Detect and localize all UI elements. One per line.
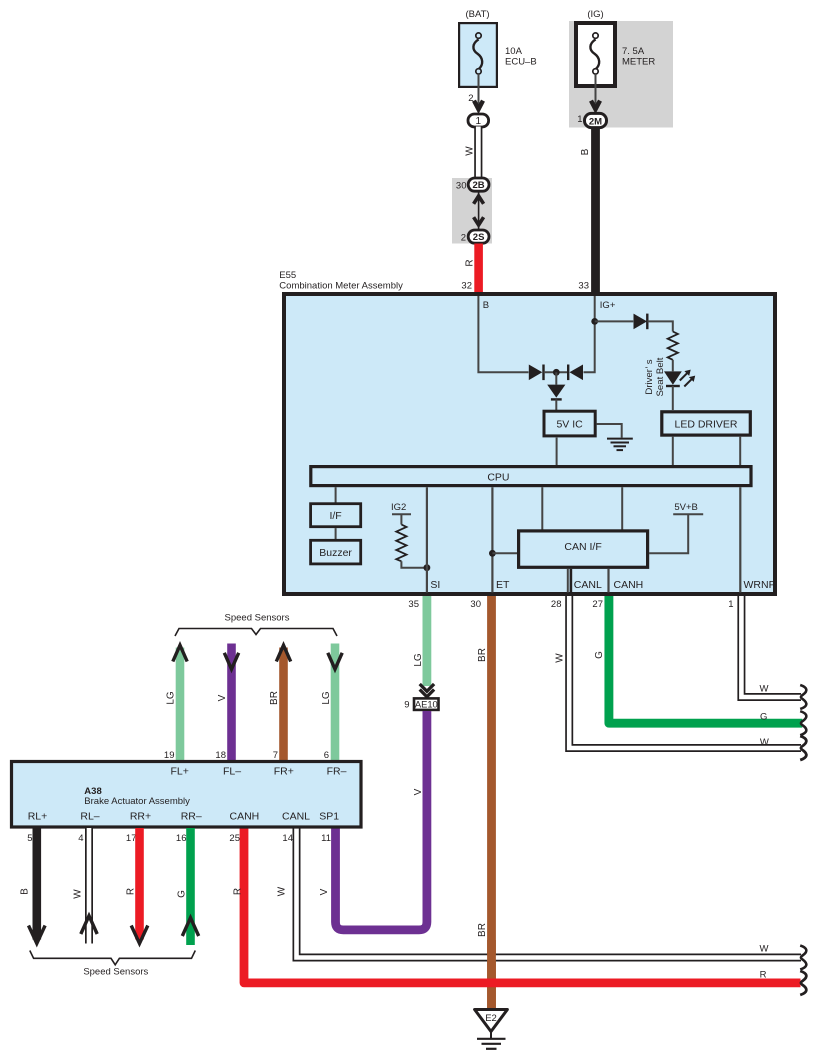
svg-text:V: V bbox=[413, 788, 424, 795]
label B (interior) bbox=[483, 300, 489, 311]
pin 33 bbox=[578, 281, 589, 292]
svg-text:IG2: IG2 bbox=[391, 502, 406, 513]
5V IC box bbox=[544, 411, 595, 436]
svg-text:ECU–B: ECU–B bbox=[505, 57, 537, 68]
svg-text:I/F: I/F bbox=[329, 510, 341, 522]
svg-text:ET: ET bbox=[496, 579, 510, 591]
svg-text:CANL: CANL bbox=[574, 579, 602, 591]
svg-text:BR: BR bbox=[477, 648, 488, 662]
label W (RL-) bbox=[72, 889, 83, 899]
pin 32 line B bbox=[478, 296, 528, 372]
svg-text:2M: 2M bbox=[589, 116, 602, 127]
pin 1 (WRNP) bbox=[728, 599, 733, 610]
diode D2 bbox=[634, 314, 648, 330]
pin name CANL bbox=[282, 811, 310, 823]
connector AE10 bbox=[414, 698, 439, 710]
value 7.5A METER bbox=[622, 46, 655, 68]
svg-text:E55: E55 bbox=[279, 270, 296, 281]
svg-text:W: W bbox=[72, 889, 83, 899]
svg-text:Buzzer: Buzzer bbox=[319, 547, 352, 559]
CAN I/F box bbox=[519, 531, 648, 567]
pin 27 bbox=[592, 599, 603, 610]
wire CANL-14 horizontal to edge bbox=[297, 828, 802, 958]
pin 17 bbox=[126, 833, 137, 844]
svg-text:W: W bbox=[760, 683, 769, 694]
svg-text:CANH: CANH bbox=[614, 579, 644, 591]
label R (CANH-25 end) bbox=[760, 970, 767, 981]
label R bbox=[464, 259, 475, 266]
arrow double chevron (SI) bbox=[420, 684, 434, 697]
label BR (FR+) bbox=[269, 691, 280, 705]
pin 7 bbox=[273, 750, 278, 761]
pin 30 bbox=[470, 599, 481, 610]
svg-text:30: 30 bbox=[470, 599, 481, 610]
Buzzer box bbox=[311, 540, 361, 564]
label G (CANH end) bbox=[760, 712, 767, 723]
wire D2 to resistor bbox=[647, 321, 673, 331]
pin 18 bbox=[215, 750, 226, 761]
CPU box bbox=[311, 467, 751, 486]
svg-text:R: R bbox=[464, 259, 475, 266]
label V (FL-) bbox=[217, 694, 228, 701]
label LG bbox=[413, 653, 424, 667]
svg-text:(BAT): (BAT) bbox=[465, 9, 489, 20]
wire I/F to Buzzer bbox=[335, 528, 337, 539]
label LG (FL+) bbox=[165, 691, 176, 705]
svg-text:WRNP: WRNP bbox=[744, 579, 776, 591]
svg-text:METER: METER bbox=[622, 57, 655, 68]
svg-text:2S: 2S bbox=[473, 232, 485, 243]
wire WRNP (CPU to pin 1) bbox=[739, 487, 741, 592]
break symbol (CANL-14) bbox=[800, 946, 806, 970]
pin 11 bbox=[321, 833, 331, 844]
wire W (junction 1 to 2B) bbox=[474, 127, 482, 181]
bracket speed sensors bottom bbox=[30, 951, 196, 965]
svg-text:B: B bbox=[19, 888, 30, 895]
resistor IG2 bbox=[396, 525, 406, 562]
svg-text:RL–: RL– bbox=[80, 811, 99, 823]
resistor (seat belt LED) bbox=[668, 332, 678, 360]
bracket speed sensors top bbox=[175, 629, 337, 637]
svg-text:FR–: FR– bbox=[327, 766, 347, 778]
gray panel IG bbox=[569, 21, 673, 128]
pin 5 bbox=[27, 833, 32, 844]
svg-text:G: G bbox=[594, 651, 605, 659]
pin name FL+ bbox=[171, 766, 189, 778]
wire CANH-25 red to edge bbox=[244, 828, 801, 983]
junction oval 2S bbox=[468, 230, 489, 243]
arrow into junction 2M bbox=[591, 101, 600, 110]
wire B (2M to pin 33) bbox=[591, 128, 600, 294]
E55 Combination Meter Assembly title bbox=[279, 270, 403, 292]
svg-text:2: 2 bbox=[461, 233, 466, 244]
wire between diode bars bbox=[544, 371, 569, 373]
label IG+ bbox=[600, 300, 616, 311]
pin name SI bbox=[430, 579, 440, 591]
svg-text:Seat Belt: Seat Belt bbox=[655, 357, 666, 396]
svg-text:10A: 10A bbox=[505, 46, 523, 57]
wire WRNP white bbox=[741, 596, 801, 697]
svg-text:7: 7 bbox=[273, 750, 278, 761]
pin name RR- bbox=[181, 811, 202, 823]
mating arrows 2B-2S bbox=[474, 192, 484, 230]
svg-text:R: R bbox=[125, 888, 136, 895]
wire RR+ R bbox=[131, 828, 148, 944]
svg-text:B: B bbox=[580, 148, 591, 155]
label W (CANL-14 end) bbox=[760, 944, 769, 955]
svg-text:G: G bbox=[760, 712, 767, 723]
svg-text:W: W bbox=[554, 653, 565, 663]
pin name FR- bbox=[327, 766, 347, 778]
pin name RL+ bbox=[28, 811, 48, 823]
svg-text:V: V bbox=[217, 694, 228, 701]
break symbol (CANL-28) bbox=[800, 736, 806, 760]
pin 25 bbox=[229, 833, 240, 844]
fuse 10A ECU-B bbox=[459, 23, 497, 87]
label B (RL+) bbox=[19, 888, 30, 895]
A38 title bbox=[84, 786, 190, 807]
pin 28 bbox=[551, 599, 562, 610]
svg-text:14: 14 bbox=[282, 833, 293, 844]
svg-text:W: W bbox=[760, 944, 769, 955]
arrow up RR- bbox=[182, 918, 198, 936]
pin name CANH bbox=[230, 811, 260, 823]
svg-text:2B: 2B bbox=[473, 180, 485, 191]
pin name RR+ bbox=[130, 811, 151, 823]
fuse 7.5A METER bbox=[576, 23, 615, 86]
svg-text:RR+: RR+ bbox=[130, 811, 151, 823]
ground (5V IC) bbox=[597, 424, 633, 450]
label W bbox=[464, 146, 475, 156]
label V (SP1 wire) bbox=[319, 888, 330, 895]
wire FR- LG bbox=[331, 644, 340, 761]
svg-text:BR: BR bbox=[477, 923, 488, 937]
value 10A ECU-B bbox=[505, 46, 537, 68]
break symbol (CANH) bbox=[800, 711, 806, 735]
pin 35 bbox=[408, 599, 419, 610]
net 5V+B bbox=[649, 502, 703, 553]
junction oval 2M bbox=[585, 113, 607, 127]
wire RR- G bbox=[186, 828, 195, 945]
pin 4 bbox=[78, 833, 83, 844]
svg-text:LED DRIVER: LED DRIVER bbox=[674, 418, 737, 430]
svg-text:17: 17 bbox=[126, 833, 137, 844]
pin 6 bbox=[324, 750, 329, 761]
wire CPU to I/F bbox=[335, 487, 337, 502]
wire FL- V bbox=[227, 644, 236, 761]
pin 1 (2M) bbox=[577, 114, 582, 125]
pin name ET bbox=[496, 579, 510, 591]
pin 32 bbox=[461, 281, 472, 292]
I/F box bbox=[311, 504, 361, 527]
svg-text:CPU: CPU bbox=[487, 472, 509, 484]
pin name RL- bbox=[80, 811, 99, 823]
diode D3 bbox=[568, 365, 583, 381]
svg-text:30: 30 bbox=[456, 181, 467, 192]
pin 9 (AE10) bbox=[404, 699, 409, 710]
pin name WRNP bbox=[744, 579, 776, 591]
pin name CANH bbox=[614, 579, 644, 591]
pin 16 bbox=[176, 833, 187, 844]
svg-text:G: G bbox=[176, 890, 187, 898]
wire LG (SI to AE10) bbox=[422, 596, 431, 686]
svg-text:28: 28 bbox=[551, 599, 562, 610]
svg-text:LG: LG bbox=[165, 691, 176, 705]
wire BR overlay (crossing) bbox=[487, 940, 496, 1009]
wire resistor to LED bbox=[672, 360, 674, 372]
label G (RR-) bbox=[176, 890, 187, 898]
wire CANL-28 white bbox=[569, 596, 801, 748]
diode D4 (down) bbox=[547, 372, 565, 410]
svg-text:LG: LG bbox=[413, 653, 424, 667]
label Speed Sensors (top) bbox=[225, 613, 290, 624]
wire fuse2 to junction 2M bbox=[595, 74, 597, 110]
svg-text:Brake Actuator Assembly: Brake Actuator Assembly bbox=[84, 796, 190, 807]
svg-text:W: W bbox=[464, 146, 475, 156]
wire FR+ BR bbox=[279, 648, 288, 761]
svg-text:V: V bbox=[319, 888, 330, 895]
svg-text:35: 35 bbox=[408, 599, 419, 610]
pin 2 (2S) bbox=[461, 233, 466, 244]
wire ET (CPU to pin 30) bbox=[491, 487, 493, 592]
svg-text:CANL: CANL bbox=[282, 811, 310, 823]
arrow down FR- bbox=[328, 653, 342, 669]
arrow up FR+ bbox=[276, 645, 290, 661]
svg-text:SI: SI bbox=[430, 579, 440, 591]
svg-text:AE10: AE10 bbox=[415, 699, 438, 710]
wire IG+ to diode D2 bbox=[595, 320, 634, 322]
E55 box bbox=[284, 294, 775, 594]
svg-text:W: W bbox=[276, 886, 287, 896]
svg-text:FL+: FL+ bbox=[171, 766, 189, 778]
svg-text:CAN I/F: CAN I/F bbox=[564, 541, 601, 553]
node ET junction bbox=[489, 550, 496, 557]
svg-text:27: 27 bbox=[592, 599, 603, 610]
svg-text:33: 33 bbox=[578, 281, 589, 292]
wire fuse1 to junction 1 bbox=[478, 74, 480, 110]
svg-text:CANH: CANH bbox=[230, 811, 260, 823]
svg-text:R: R bbox=[233, 888, 244, 895]
pin name FR+ bbox=[274, 766, 294, 778]
svg-text:4: 4 bbox=[78, 833, 83, 844]
wire FL+ LG bbox=[176, 648, 185, 761]
pin 33 line IG+ bbox=[584, 296, 595, 372]
LED driver's seat belt bbox=[664, 370, 695, 387]
svg-text:BR: BR bbox=[269, 691, 280, 705]
LED DRIVER box bbox=[662, 412, 751, 435]
svg-text:Driver’ s: Driver’ s bbox=[644, 359, 655, 394]
wire IG2 to SI node bbox=[401, 561, 427, 567]
arrow down FL- bbox=[224, 653, 238, 669]
ground E2 bbox=[475, 1010, 508, 1049]
label R (RR+) bbox=[125, 888, 136, 895]
svg-text:(IG): (IG) bbox=[587, 9, 603, 20]
node SI junction bbox=[424, 564, 431, 571]
label (IG) bbox=[587, 9, 603, 20]
connector gray panel 2B/2S bbox=[452, 178, 492, 244]
A38 box bbox=[12, 762, 362, 828]
wire RL+ B bbox=[29, 828, 46, 944]
junction oval 1 bbox=[468, 114, 489, 127]
svg-text:RL+: RL+ bbox=[28, 811, 48, 823]
pin 14 bbox=[282, 833, 293, 844]
pin 2 bbox=[468, 93, 473, 104]
label Driver's Seat Belt bbox=[644, 357, 666, 396]
svg-text:19: 19 bbox=[164, 750, 175, 761]
junction oval 2B bbox=[468, 178, 489, 191]
svg-text:25: 25 bbox=[229, 833, 240, 844]
label BR (lower) bbox=[477, 923, 488, 937]
svg-text:B: B bbox=[483, 300, 489, 311]
break symbol (WRNP) bbox=[800, 685, 806, 709]
svg-text:Speed Sensors: Speed Sensors bbox=[83, 967, 148, 978]
svg-text:9: 9 bbox=[404, 699, 409, 710]
svg-text:18: 18 bbox=[215, 750, 226, 761]
wire LED to LED DRIVER bbox=[672, 386, 674, 410]
svg-text:E2: E2 bbox=[485, 1013, 497, 1024]
wire BR (ET to E2) bbox=[487, 596, 496, 1009]
wire ET to CAN I/F bbox=[492, 552, 517, 554]
wire SI (CPU to pin 35) bbox=[426, 487, 428, 592]
node diode junction bbox=[553, 369, 560, 376]
wire V (AE10 to SP1) bbox=[336, 711, 427, 930]
label W (CANL-28) bbox=[554, 653, 565, 663]
label W (CANL-14) bbox=[276, 886, 287, 896]
svg-text:LG: LG bbox=[321, 691, 332, 705]
svg-text:1: 1 bbox=[728, 599, 733, 610]
svg-text:32: 32 bbox=[461, 281, 472, 292]
svg-text:Speed Sensors: Speed Sensors bbox=[225, 613, 290, 624]
label LG (FR-) bbox=[321, 691, 332, 705]
svg-text:FL–: FL– bbox=[223, 766, 241, 778]
break symbol (CANH-25) bbox=[800, 971, 806, 995]
svg-text:1: 1 bbox=[476, 116, 482, 127]
wire 5V IC to CPU bbox=[556, 438, 558, 465]
arrow up RL- bbox=[81, 916, 97, 934]
label V (AE10 wire) bbox=[413, 788, 424, 795]
wire RL- W bbox=[85, 828, 93, 944]
wires CPU to CAN I/F bbox=[542, 487, 622, 529]
svg-text:5: 5 bbox=[27, 833, 32, 844]
divider tick CANL bbox=[570, 569, 573, 593]
arrow into junction 1 bbox=[474, 101, 483, 110]
label G (CANH-27) bbox=[594, 651, 605, 659]
svg-text:IG+: IG+ bbox=[600, 300, 616, 311]
pin 30 bbox=[456, 181, 467, 192]
svg-text:5V+B: 5V+B bbox=[674, 502, 698, 513]
label (BAT) bbox=[465, 9, 489, 20]
arrow up FL+ bbox=[173, 645, 187, 661]
net IG2 bbox=[391, 502, 411, 525]
svg-text:5V IC: 5V IC bbox=[556, 418, 583, 430]
svg-text:R: R bbox=[760, 970, 767, 981]
svg-text:1: 1 bbox=[577, 114, 582, 125]
svg-text:FR+: FR+ bbox=[274, 766, 294, 778]
pin 19 bbox=[164, 750, 175, 761]
pin name CANL bbox=[574, 579, 602, 591]
label W (WRNP end) bbox=[760, 683, 769, 694]
pin name FL- bbox=[223, 766, 241, 778]
label R (CANH-25) bbox=[233, 888, 244, 895]
wire CANH pin bbox=[607, 569, 609, 593]
node IG+ junction bbox=[591, 318, 598, 325]
diode D1 bbox=[529, 365, 544, 381]
wire CANL pin bbox=[567, 569, 569, 593]
label W (CANL-28 end) bbox=[760, 737, 769, 748]
svg-text:RR–: RR– bbox=[181, 811, 202, 823]
wire R (2S to pin 32) bbox=[474, 244, 483, 295]
svg-text:SP1: SP1 bbox=[319, 811, 339, 823]
label B bbox=[580, 148, 591, 155]
svg-text:11: 11 bbox=[321, 833, 331, 844]
svg-text:Combination Meter Assembly: Combination Meter Assembly bbox=[279, 281, 403, 292]
wire CANH-27 green bbox=[609, 596, 802, 723]
svg-text:16: 16 bbox=[176, 833, 187, 844]
svg-text:6: 6 bbox=[324, 750, 329, 761]
pin name SP1 bbox=[319, 811, 339, 823]
svg-text:W: W bbox=[760, 737, 769, 748]
svg-text:7. 5A: 7. 5A bbox=[622, 46, 645, 57]
wires LED DRIVER to CPU bbox=[673, 437, 740, 465]
label BR (upper) bbox=[477, 648, 488, 662]
label Speed Sensors (bottom) bbox=[83, 967, 148, 978]
